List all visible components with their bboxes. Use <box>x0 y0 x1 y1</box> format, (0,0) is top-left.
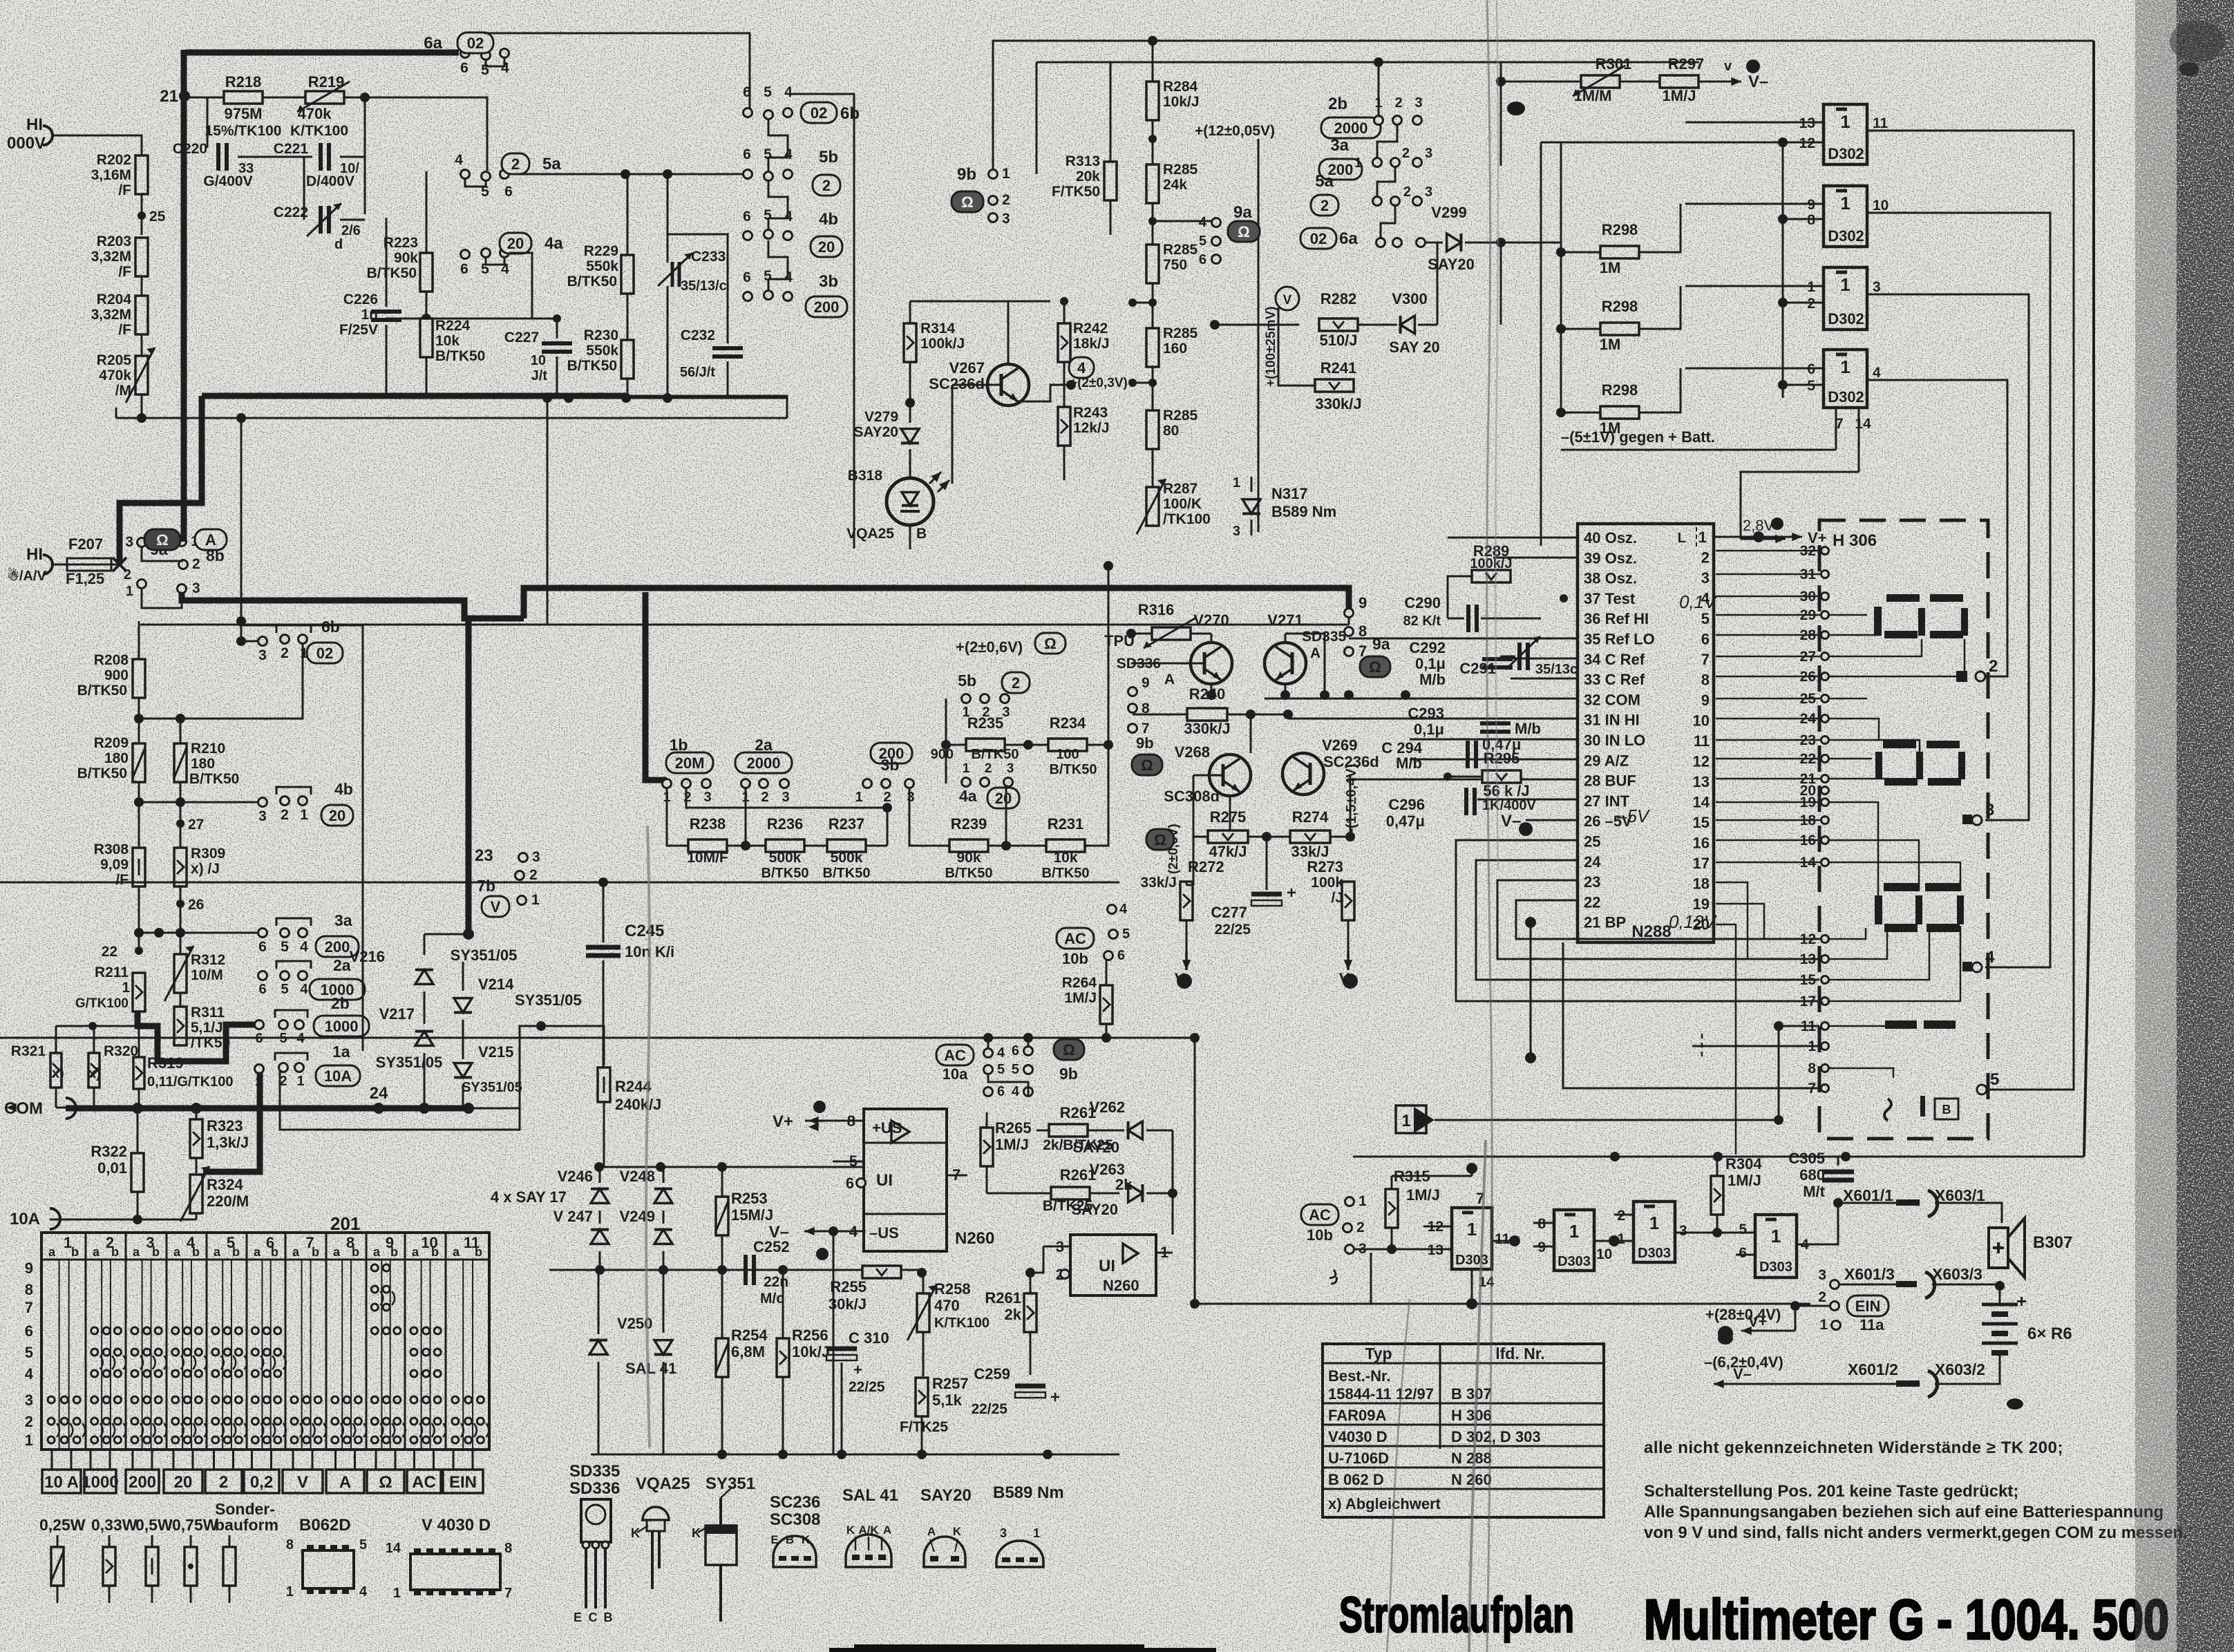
resistor R211 <box>133 973 145 1012</box>
wire R241 right <box>1354 325 1456 386</box>
node 26 <box>180 886 182 933</box>
rail y1838 <box>549 1269 925 1271</box>
capacitor C220 <box>207 97 209 148</box>
crease line right <box>1487 0 1492 1652</box>
wire pin38 <box>1541 577 1578 578</box>
wire 4b row <box>747 240 748 254</box>
resistor R273 <box>1342 882 1354 920</box>
diode V246 <box>591 1189 609 1204</box>
diode SAL41 second <box>654 1340 672 1355</box>
V+ arrow <box>808 1126 847 1128</box>
diode V214 <box>454 998 472 1013</box>
wire R205 to node <box>141 395 143 418</box>
wire 10b <box>1347 1232 1348 1237</box>
wire 7b <box>522 862 524 871</box>
crease line left lower <box>646 826 650 1447</box>
node row y1040 <box>138 698 140 742</box>
resistor R229 <box>621 255 634 294</box>
diode V262 <box>1128 1121 1143 1139</box>
wire y1485 to R244 <box>541 1026 604 1065</box>
diode V248 <box>654 1189 672 1204</box>
resistor R285 80 <box>1146 410 1159 449</box>
AC 10b switch mid <box>1057 928 1094 949</box>
V267 emitter out <box>1018 385 1071 401</box>
resistor R274 <box>1290 830 1330 843</box>
wire R315 top <box>1392 1175 1472 1177</box>
bar symbol <box>1920 1096 1925 1117</box>
wire 10A <box>50 1219 196 1221</box>
wire pin22 <box>1516 900 1819 939</box>
node R223/C226 <box>386 217 426 218</box>
contact x cross <box>113 558 126 571</box>
wire rail y1887 <box>1195 1303 1810 1305</box>
resistor R265 <box>981 1128 993 1166</box>
digit group 3 <box>1884 883 1918 891</box>
wire 3b-6 left <box>719 301 748 322</box>
input wires from left <box>1685 122 1824 124</box>
ink blob <box>2007 1398 2023 1409</box>
switch 3b <box>744 292 752 301</box>
wire pin26 <box>1526 819 1578 822</box>
resistor R314 <box>904 323 916 362</box>
capacitor C221 <box>304 156 312 158</box>
ladder box right edge x525 <box>239 625 363 1051</box>
wire 6a link <box>486 58 504 66</box>
resistor R218 <box>224 91 263 104</box>
bus y1502 <box>0 1037 1195 1039</box>
contact 3 <box>1962 815 1972 824</box>
wire pin23 <box>1497 880 1819 959</box>
resistor R298 c <box>1600 406 1639 419</box>
wire pin29 A/Z <box>1410 759 1578 761</box>
resistor R304 <box>1711 1176 1723 1215</box>
flipflop D302 #1 <box>1824 104 1867 164</box>
speaker B307 <box>1989 1228 2008 1268</box>
wire pin14 route to V+ <box>1741 472 1859 539</box>
arrow V- right <box>1698 81 1741 83</box>
wire V299 junction down <box>1500 243 1502 325</box>
wire R223 top <box>426 171 428 253</box>
resistor R324 trimmer <box>190 1175 202 1213</box>
wire bus y605 <box>116 417 787 419</box>
wire EIN to V+ <box>1795 1305 1830 1307</box>
resistor R238 <box>688 839 727 852</box>
switch 9a mid <box>1212 218 1221 227</box>
resistor R284 <box>1146 82 1159 120</box>
V267 collector <box>1007 301 1010 364</box>
test point V circle <box>1276 287 1299 310</box>
row y1350 <box>138 886 140 951</box>
wires 10a/9b <box>983 1033 993 1043</box>
switch 9a contacts <box>138 538 146 547</box>
wire 4a to R223 column <box>426 240 465 254</box>
wire 4a-4 down <box>509 253 532 319</box>
digit group 2 <box>1883 741 1916 748</box>
wire y461 rail <box>426 318 557 320</box>
resistor R285 160 <box>1146 328 1159 367</box>
diode V300 SAY20 <box>1358 324 1397 326</box>
transistor V267 SC236d <box>987 364 1029 406</box>
resistor R256 <box>777 1338 789 1377</box>
collector wires <box>1211 634 1213 643</box>
wire pin27 INT <box>1477 799 1578 801</box>
wire bottom rail y1603 <box>56 1107 94 1109</box>
wire pin8 route <box>1829 1068 1893 1078</box>
resistor R205 (trimmer) <box>135 356 148 395</box>
resistor R203 <box>135 238 148 276</box>
diode V216 <box>415 970 433 985</box>
rail y1689 <box>599 1166 864 1168</box>
left rail R320/R321 <box>88 1022 97 1030</box>
wire 5b <box>965 703 967 719</box>
node V279 top <box>905 398 915 408</box>
big rect border x2230 <box>1540 142 1542 546</box>
diode V250 <box>589 1340 607 1355</box>
switch 3a lower <box>258 929 267 938</box>
flipflop D303 #1 <box>1452 1208 1492 1269</box>
wire N260-2 out <box>1172 1234 1173 1235</box>
resistor R285 24k <box>1146 164 1159 203</box>
wire pin21 BP <box>1525 917 1536 928</box>
flipflop D303 #4 <box>1755 1215 1797 1278</box>
wire R237 right <box>866 845 887 847</box>
D303 #1 bottom pin <box>1471 1269 1473 1304</box>
output verticals to H306 contacts <box>1985 131 2074 1090</box>
left bus vertical x2580 <box>1782 142 1784 398</box>
capacitor C245 <box>603 882 605 942</box>
node x1729 <box>1190 1033 1200 1043</box>
resistor R321 <box>50 1053 61 1088</box>
R258 tap <box>922 1332 925 1376</box>
node 25 <box>141 194 143 235</box>
wire HI to R202 <box>53 135 142 155</box>
resistor R242 <box>1058 323 1070 362</box>
wire pin40 <box>1448 537 1578 539</box>
resistor R209 <box>133 743 145 782</box>
wire <box>141 334 143 356</box>
terminal HI A/V <box>43 555 53 574</box>
resistor R240 <box>1187 708 1227 721</box>
wire pin25 <box>1456 840 1819 1001</box>
R235 nodes <box>941 740 951 750</box>
wire pin32 COM <box>1265 698 1578 700</box>
resistor R264 <box>1100 985 1113 1024</box>
rail y2105 bottom <box>591 1454 1119 1456</box>
resistor R208 <box>133 659 145 698</box>
range label 1000 <box>84 1470 116 1493</box>
contact 4 <box>1962 962 1972 971</box>
resistor R289 <box>1472 570 1511 582</box>
AC 10b switch lower <box>1301 1204 1338 1225</box>
R240 right node <box>1246 718 1247 719</box>
thin bus y573 extension <box>626 396 787 418</box>
resistor R315 <box>1385 1189 1398 1228</box>
node 27 <box>176 819 184 828</box>
node C233 wires <box>621 169 630 179</box>
contact 2 <box>1956 671 1967 682</box>
wire gegen Batt to pin7 <box>1703 449 1836 451</box>
ladder 2b-3a <box>1377 124 1397 158</box>
crease center bottom <box>1387 1299 1410 1652</box>
capacitor C290 <box>1466 605 1470 632</box>
matrix contacts pattern <box>48 1396 55 1403</box>
vertical x2259 <box>1560 142 1562 412</box>
wire V262/V263 join <box>1172 1130 1174 1235</box>
wire to 5a <box>365 97 487 171</box>
resistor R254 <box>716 1338 728 1377</box>
range label AC <box>407 1470 441 1493</box>
wire pin39 <box>1493 557 1578 559</box>
switch 6b lower <box>236 636 246 646</box>
ink blob <box>1746 59 1760 73</box>
capacitor C226 <box>386 218 388 307</box>
resistor R308 <box>133 848 145 886</box>
range label 10 A <box>42 1470 81 1493</box>
capacitor C294 <box>1466 741 1470 768</box>
resistor R235 <box>966 739 1005 751</box>
resistor R241 <box>1315 379 1354 392</box>
zener N317 <box>1251 477 1253 492</box>
resistor R204 <box>135 296 148 334</box>
switch 4a <box>461 250 470 259</box>
resistor R322 <box>131 1153 144 1192</box>
ladder step 5b-4b <box>768 180 788 231</box>
wire N288 pin 22 route <box>1516 900 1679 1057</box>
flipflop D302 #3 <box>1824 267 1867 330</box>
emitter rail y1006 <box>1211 684 1213 695</box>
resistor R244 <box>598 1067 610 1102</box>
wires H306 pins to digit segments <box>1829 614 1867 616</box>
bottom scan strip <box>829 1648 1216 1652</box>
ladder step 4b-3b <box>768 240 788 292</box>
pin2 rail y1169 <box>686 788 887 846</box>
IC N288 U-7106D main converter <box>1578 524 1714 942</box>
trimmer diagonal R324 <box>166 1201 196 1227</box>
display H306 dashed box <box>1819 520 1988 1139</box>
7b switch <box>519 853 528 862</box>
terminal HI 1000V <box>43 126 53 145</box>
resistor R297 <box>1660 75 1698 88</box>
resistor R231 <box>1046 839 1085 852</box>
vertical x792 <box>547 398 549 625</box>
wire 9 contact to thick bus <box>1348 617 1350 625</box>
wire rail y470 <box>1210 320 1220 330</box>
digit group 1 <box>1886 594 1920 602</box>
switch 1a lower <box>255 1065 264 1074</box>
wire R241 left <box>1278 307 1315 386</box>
flipflop D302 #4 <box>1824 350 1867 408</box>
resistor R223 <box>420 253 433 292</box>
wire pin34 <box>1511 658 1578 660</box>
wire 5a-6 right <box>509 173 748 175</box>
resistor R285 750 <box>1146 245 1159 283</box>
transistor V270 <box>1191 643 1232 684</box>
range label EIN <box>443 1470 483 1493</box>
AC 10a switch <box>936 1045 974 1065</box>
thick jog to R324 <box>203 1169 260 1175</box>
ladder step 6b-5b <box>768 119 788 171</box>
wire tops <box>424 933 468 936</box>
trimmer return wire <box>115 408 117 418</box>
wire thick left vertical <box>181 50 187 542</box>
wire V267 area verticals <box>1007 301 1009 302</box>
resistor R210 <box>174 743 187 782</box>
rail y1674 long <box>1353 1156 2084 1158</box>
capacitor C310 <box>841 1270 842 1345</box>
N288 left pin wires verticals <box>1447 538 1448 576</box>
resistor R253 <box>716 1197 728 1235</box>
wire C226-R224 link <box>386 318 426 320</box>
wire gegen batt y651 <box>1561 449 1703 451</box>
wire C233 down <box>667 286 669 398</box>
table header divider <box>1323 1363 1604 1365</box>
switch EIN 11a <box>1830 1302 1839 1311</box>
switch 5b <box>744 170 752 179</box>
wire y1635 row <box>280 1070 520 1130</box>
switch 2b lower <box>255 1020 264 1029</box>
diode V263 <box>1128 1184 1143 1202</box>
diode V299 SAY20 <box>1447 234 1461 251</box>
ladder 5a-6a <box>1381 205 1395 238</box>
terminal 10A <box>50 1208 60 1229</box>
thick bus y851 <box>524 588 645 618</box>
range label A <box>326 1470 364 1493</box>
vertical wire x349 <box>240 418 243 621</box>
pin1 V+ arrow <box>1714 536 1769 538</box>
V- arrow down right <box>1347 951 1350 970</box>
wire pin30 IN LO <box>1410 739 1578 741</box>
capacitor C227 <box>556 319 558 339</box>
wire N288 pin 24 route <box>1476 860 1679 1016</box>
bus y904 long <box>140 624 1349 626</box>
V+ arrow down left <box>1185 951 1188 970</box>
resistor R272 <box>1180 882 1193 920</box>
ladder 3a-5a <box>1377 167 1395 197</box>
resistor R312 trimmer <box>174 954 187 993</box>
resistor R295 <box>1482 770 1521 783</box>
wire H306 pin7 route <box>1563 942 1819 1088</box>
resistor R313 <box>1104 162 1117 200</box>
wire speaker down <box>2001 1268 2003 1286</box>
buffer 1 triangle <box>1396 1105 1426 1133</box>
switch 2a lower <box>258 971 267 980</box>
thick horizontal into 24 <box>468 934 469 962</box>
thick 8b-3 wire <box>182 593 524 618</box>
matrix header <box>41 1259 489 1261</box>
wire x1729 down <box>1194 1038 1196 1304</box>
capacitor C277 <box>1266 837 1268 890</box>
wire N288 pin20 route <box>1716 924 1736 1155</box>
range label 20 <box>164 1470 202 1493</box>
wire pin35 Ref LO <box>1349 638 1578 640</box>
thick corner x292 <box>120 396 202 564</box>
resistor R319 <box>133 1057 144 1089</box>
wire B318 down <box>909 525 911 549</box>
resistor R287 trimmer <box>1146 487 1159 526</box>
connector X601/3 <box>1830 1280 1839 1289</box>
range label 200 <box>126 1470 159 1493</box>
diode V249 <box>654 1230 672 1244</box>
corner smudges <box>2170 21 2225 62</box>
resistor R230 <box>621 340 634 379</box>
wire 9b-1 up to bus <box>993 41 2094 170</box>
table rows <box>1323 1403 1604 1405</box>
resistor R258 trimmer <box>917 1293 929 1332</box>
transistor V269 <box>1282 753 1324 795</box>
R239 right node <box>1001 841 1011 851</box>
parts table <box>1323 1344 1604 1517</box>
resistor R275 <box>1208 830 1248 843</box>
diode V217 <box>415 1032 433 1046</box>
symbol B box <box>1935 1099 1958 1119</box>
capacitor C222 (trimmer) <box>303 157 305 220</box>
wire N288 pin18 route <box>1716 882 1821 959</box>
transistor V271 <box>1265 643 1306 684</box>
box corner x1821 <box>1258 139 1260 532</box>
flipflop D302 #2 <box>1824 186 1867 247</box>
wire N288 pin19 route <box>1716 904 1821 939</box>
capacitor C232 <box>727 332 729 343</box>
resistor R243 <box>1058 407 1070 446</box>
switch 6b <box>744 108 752 117</box>
left block outline bottom <box>140 417 141 419</box>
wire pin31 junction <box>1287 714 1289 719</box>
resistor R202 <box>135 155 148 194</box>
capacitor C305 <box>1837 1157 1839 1166</box>
top thin bus from 6a <box>484 33 750 108</box>
osc box outline <box>1430 557 1578 675</box>
diode V215 <box>454 1063 472 1078</box>
wire H306 pin11 route <box>1779 1025 1819 1027</box>
N288-H306 wire bundle <box>1716 550 1821 552</box>
box outline <box>949 628 950 660</box>
wire 9b-3 down <box>992 222 994 301</box>
digit group 4 dashes <box>1885 1020 1917 1029</box>
row y1161 <box>138 782 140 847</box>
rail y436 <box>910 301 1050 303</box>
COM wire thick <box>6 1107 51 1108</box>
wire down from 9a/8b to R208 <box>138 641 140 658</box>
wire pin24 <box>1476 860 1819 980</box>
thick zigzag R311 area <box>138 1012 254 1061</box>
switch 5a <box>461 170 470 179</box>
capacitor C293 <box>1480 721 1511 725</box>
box frame C232/C233 <box>668 234 728 332</box>
wire N288 pin 23 route <box>1497 880 1679 1036</box>
V270 base wire <box>1190 634 1191 652</box>
flipflop D303 #2 <box>1554 1210 1594 1271</box>
wire 8b-1 thick stub <box>181 538 187 542</box>
rect around 6b contacts <box>276 625 311 633</box>
wire pin4 down <box>833 1231 835 1454</box>
V268/V269 wiring <box>1229 714 1231 754</box>
diode V279 SAY20 <box>909 403 911 423</box>
wire from buffer <box>1435 1119 1779 1121</box>
trimmer R301 <box>1581 75 1620 88</box>
resistor R320 <box>88 1053 100 1088</box>
resistor R298 b <box>1600 323 1639 335</box>
wire R231 right <box>1085 745 1108 846</box>
switch 6a group <box>1300 228 1336 249</box>
range label 0,2 <box>244 1470 279 1493</box>
capacitor C296 <box>1464 788 1468 815</box>
contacts 9/8/7 right <box>1345 609 1354 618</box>
chain nodes <box>1148 217 1157 225</box>
node junction y605 <box>137 413 146 423</box>
long wire y634 <box>318 437 787 439</box>
wire 10b-3 to D303 <box>1354 1249 1452 1251</box>
resistor R323 <box>190 1119 202 1158</box>
